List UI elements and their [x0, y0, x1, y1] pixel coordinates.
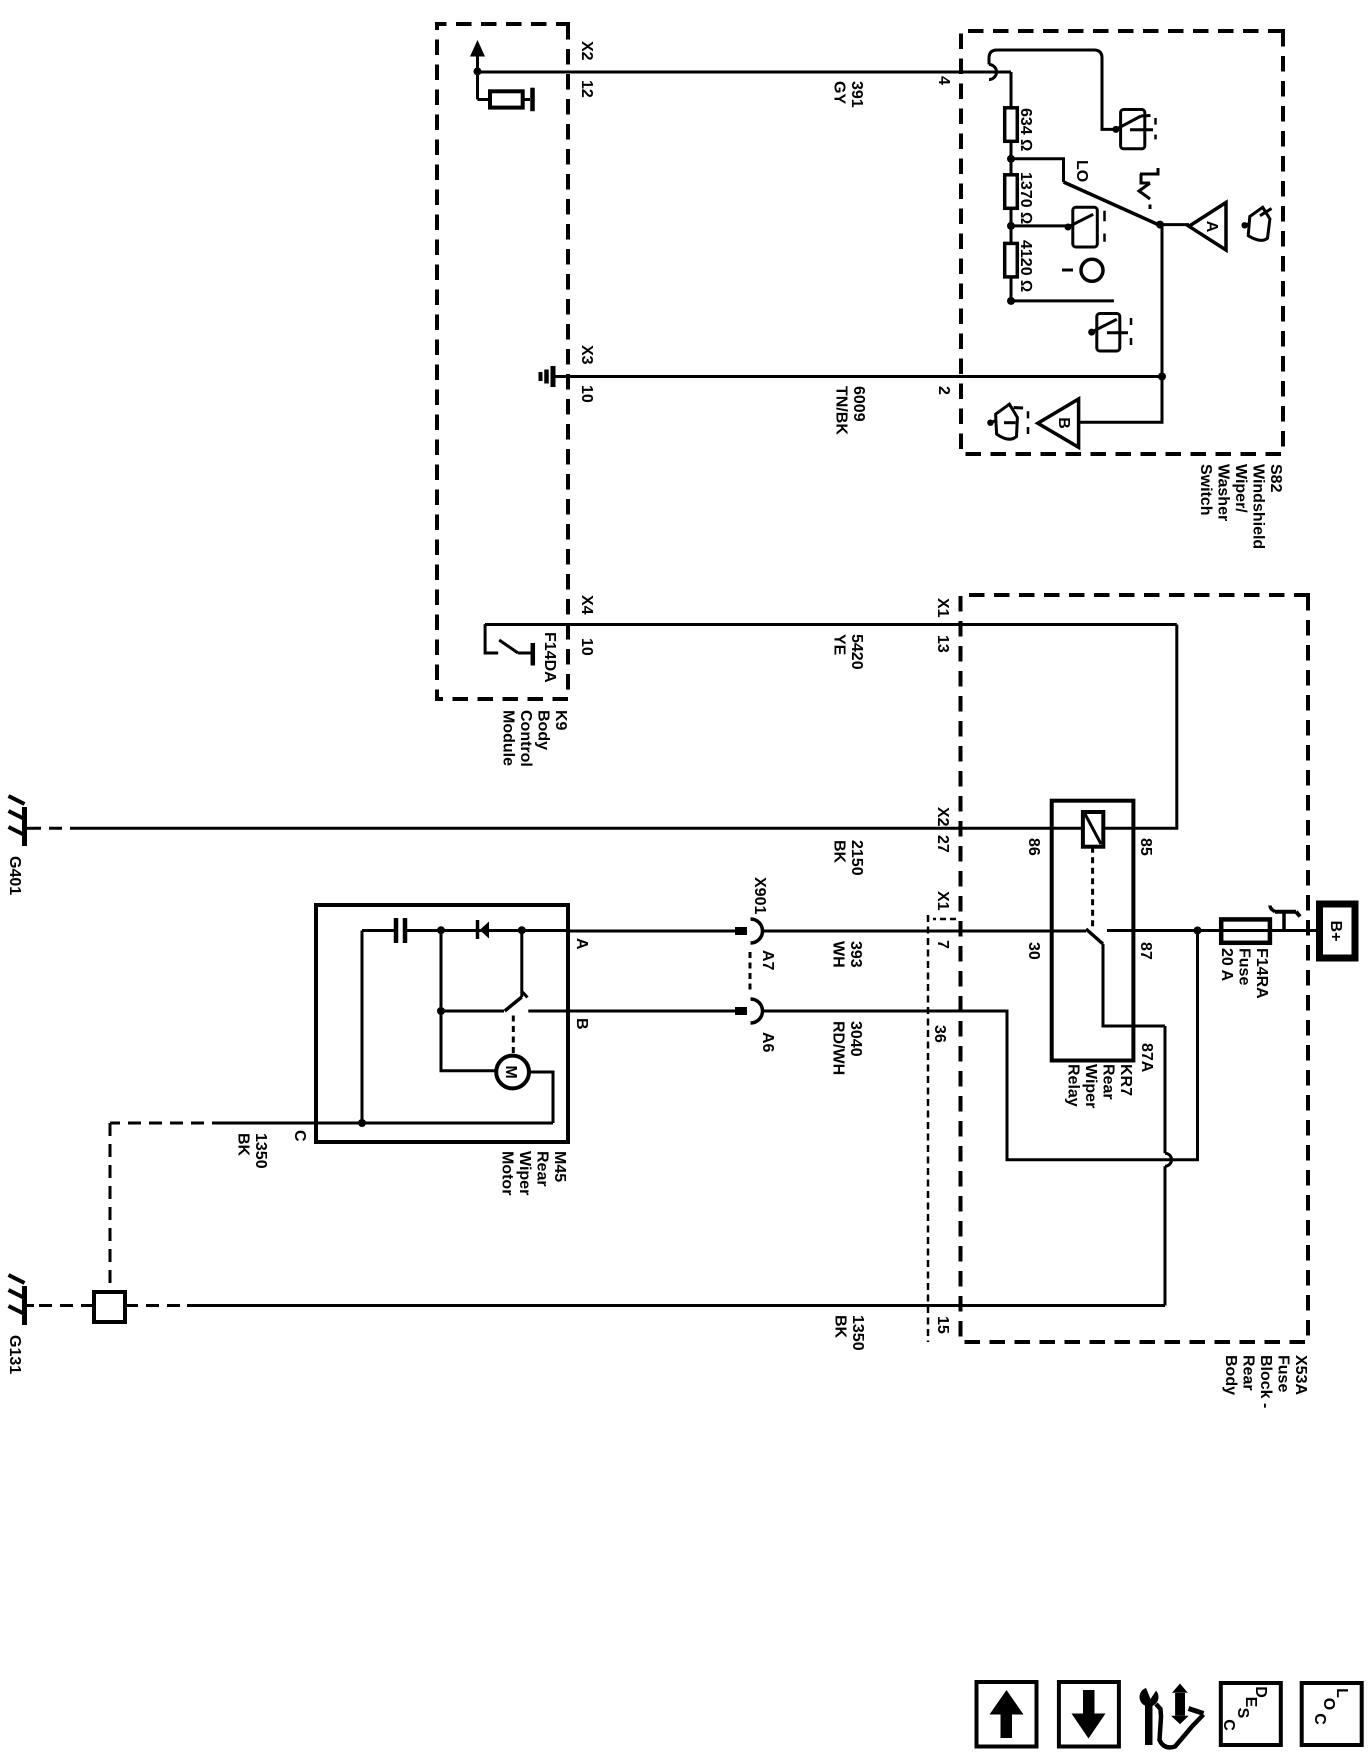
- wire: common to triangle A: [1160, 223, 1189, 226]
- K9 Body Control Module dashed box: [437, 24, 568, 699]
- G131 label: [6, 1335, 23, 1374]
- relay armature: [1086, 929, 1103, 944]
- A7 label: [759, 950, 776, 971]
- motor right wire: [529, 1072, 553, 1123]
- fuse F14RA 20 A: [1221, 919, 1270, 942]
- toolbar: previous arrow box: [977, 1682, 1037, 1747]
- node: dot2: [518, 926, 526, 934]
- svg-text:86: 86: [1025, 838, 1042, 856]
- wire label 393 WH: [830, 941, 865, 968]
- letter A: [1203, 221, 1220, 233]
- ground G401: [9, 796, 25, 846]
- svg-text:O: O: [1320, 1698, 1337, 1710]
- svg-text:B+: B+: [1327, 921, 1344, 942]
- svg-text:X901: X901: [751, 877, 768, 914]
- svg-text:X1: X1: [934, 598, 951, 618]
- svg-text:393WH: 393WH: [830, 941, 865, 968]
- terminal label 87: [1137, 942, 1154, 960]
- wire 6009 TN/BK (S82 pin 2 to BCM X3-10): [555, 375, 1162, 378]
- triangle A (circuit continuation): [1189, 203, 1226, 251]
- rail to A-wire: [361, 931, 364, 1124]
- wire 1350 BK main run: [125, 1304, 187, 1307]
- wire 3040 RD/WH (pin 36 to motor B): [763, 1010, 960, 1013]
- svg-text:12: 12: [578, 80, 595, 98]
- F14DA label: [541, 632, 558, 683]
- svg-text:S82WindshieldWiper/WasherSwitc: S82WindshieldWiper/WasherSwitch: [1197, 464, 1284, 549]
- wire: LO contact branch: [1011, 159, 1064, 182]
- wire label 1350 BK (at motor): [235, 1133, 270, 1169]
- svg-text:27: 27: [934, 835, 951, 853]
- pin label 27: [934, 835, 951, 853]
- node: fused feed junction: [1194, 927, 1202, 935]
- terminal label 86: [1025, 838, 1042, 856]
- svg-text:4: 4: [935, 76, 952, 85]
- node: junction dot wire 391 at BCM: [474, 67, 482, 75]
- terminal label 85: [1137, 838, 1154, 856]
- branch to pin 36: [959, 931, 1198, 1160]
- M45 Rear Wiper Motor box: [316, 905, 568, 1142]
- BCM switch F14DA at X4-10: [485, 624, 498, 653]
- wire: common vertical to pin 2 line: [1079, 225, 1162, 423]
- resistor 634 label: [1017, 108, 1034, 151]
- node: dot3: [437, 1007, 445, 1015]
- fuse holder terminal symbol: [1270, 906, 1300, 931]
- X901 label: [751, 877, 768, 914]
- wire 87 to B+: [1107, 929, 1320, 932]
- svg-text:M45RearWiperMotor: M45RearWiperMotor: [499, 1151, 569, 1195]
- svg-text:X53AFuseBlock -RearBody: X53AFuseBlock -RearBody: [1222, 1355, 1309, 1408]
- park switch feed: [520, 930, 523, 997]
- wiper switch position icon 3: [1088, 314, 1131, 352]
- pin label X1 (7): [934, 891, 951, 911]
- G401 label: [6, 856, 23, 895]
- toolbar: LOC box: [1302, 1683, 1362, 1745]
- pin label 10 (X3): [578, 385, 595, 403]
- pin label B: [573, 1018, 590, 1030]
- resistor 4120 label: [1017, 240, 1034, 292]
- node: dot1: [437, 926, 445, 934]
- M45 label: [499, 1151, 569, 1195]
- F14RA Fuse 20 A label: [1218, 948, 1270, 999]
- BCM internal B+ arrow symbol at X2/12: [476, 55, 479, 100]
- svg-text:B: B: [573, 1018, 590, 1030]
- capacitor: [403, 918, 408, 943]
- mist lever icon: [1139, 168, 1160, 209]
- node: common point: [1156, 221, 1164, 229]
- relay 87A path: [1103, 944, 1165, 1026]
- motor internal A wire: [362, 929, 568, 932]
- wire label 5420 YE: [831, 634, 866, 670]
- wire label 1350 BK (at fuse block): [832, 1315, 867, 1351]
- pin label A: [573, 938, 590, 950]
- park switch tick: [523, 992, 528, 998]
- resistor 634 ohm: [1005, 108, 1018, 142]
- wiper switch position icon 2: [1011, 207, 1105, 247]
- svg-text:10: 10: [578, 638, 595, 656]
- svg-text:15: 15: [934, 1316, 951, 1334]
- terminal label 30: [1025, 942, 1042, 960]
- svg-text:C: C: [1220, 1719, 1237, 1731]
- motor M letter: [502, 1065, 519, 1078]
- terminal label 87A: [1138, 1043, 1155, 1073]
- svg-text:E: E: [1242, 1697, 1259, 1708]
- wiper switch position icon 1: [1112, 110, 1155, 149]
- svg-text:6009TN/BK: 6009TN/BK: [833, 386, 868, 435]
- pin label X2: [578, 41, 595, 61]
- motor B internal wire left: [441, 1010, 504, 1013]
- svg-text:C: C: [291, 1130, 308, 1142]
- svg-text:10: 10: [578, 385, 595, 403]
- triangle B (circuit continuation): [1038, 399, 1079, 447]
- BCM internal resistor at X2/12: [478, 98, 491, 101]
- pin label 36: [931, 1025, 948, 1043]
- svg-text:C: C: [1311, 1713, 1328, 1725]
- svg-text:A: A: [573, 938, 590, 950]
- node: junction with 6009 wire: [1158, 373, 1166, 381]
- wire 393 WH lower section: [568, 930, 735, 933]
- S82 resistor chain rail: [1010, 72, 1013, 301]
- pin label X2 (27): [934, 807, 951, 827]
- svg-text:391GY: 391GY: [831, 81, 866, 108]
- svg-text:A7: A7: [759, 950, 776, 971]
- pin label 15: [934, 1316, 951, 1334]
- BCM ground symbol at X3-10: [551, 366, 556, 387]
- splice square: [94, 1292, 125, 1322]
- diode: [476, 920, 480, 939]
- letter B: [1055, 417, 1072, 429]
- ground G131: [9, 1275, 25, 1325]
- svg-text:F14DA: F14DA: [541, 632, 558, 683]
- pin label X4: [578, 595, 595, 615]
- node: chain junction 1: [1007, 155, 1015, 163]
- toolbar: DESC box: [1220, 1683, 1281, 1745]
- S82 label: [1197, 464, 1284, 549]
- wire: splice to G131 dashed: [34, 1304, 94, 1307]
- B+ terminal box: [1320, 904, 1356, 958]
- svg-text:36: 36: [931, 1025, 948, 1043]
- pin label 2: [935, 386, 952, 395]
- svg-text:1350BK: 1350BK: [832, 1315, 867, 1351]
- wire: chain bottom branch: [1011, 299, 1114, 302]
- wiper blade icon (near A): [1241, 207, 1271, 240]
- switch arm to common point: [1064, 182, 1159, 225]
- pin label 4: [935, 76, 952, 85]
- resistor 1370 label: [1017, 172, 1034, 224]
- wire 5420 YE (BCM X4-10 to fuse block X1-13): [485, 623, 1177, 626]
- pin label 13: [934, 635, 951, 653]
- pin label 10 (X4): [578, 638, 595, 656]
- svg-text:G131: G131: [6, 1335, 23, 1374]
- LO label: [1073, 160, 1090, 182]
- wire to motor: [441, 930, 496, 1070]
- wire label 391 GY: [831, 81, 866, 108]
- X901 dashed link: [749, 952, 752, 993]
- X1 connector dashed line: [927, 915, 930, 1342]
- node: rail junction: [358, 1119, 366, 1127]
- svg-text:2: 2: [935, 386, 952, 395]
- wire label 3040 RD/WH: [830, 1021, 865, 1075]
- washer circle symbol: [1081, 259, 1103, 281]
- pin label X1 (13): [934, 598, 951, 618]
- B+ label: [1327, 921, 1344, 942]
- svg-text:2150BK: 2150BK: [831, 840, 866, 876]
- svg-text:X1: X1: [934, 891, 951, 911]
- S82 internal top rail to wiper icon 1: [989, 50, 1113, 129]
- svg-text:634 Ω: 634 Ω: [1017, 108, 1034, 151]
- park switch arm: [505, 997, 522, 1011]
- svg-text:L: L: [1333, 1688, 1350, 1698]
- wire: X1-13 feed to relay 85 (corner): [1133, 625, 1176, 829]
- X53A Fuse Block - Rear Body dashed box: [961, 595, 1309, 1342]
- pin label 7: [934, 940, 951, 949]
- node: chain junction 3: [1007, 297, 1015, 305]
- wire 393 WH (relay 30 / X1-7 to motor A): [763, 930, 1087, 933]
- KR7 Rear Wiper Relay box: [1052, 801, 1134, 1061]
- wire 2150 BK (G401 to relay 86): [83, 827, 1083, 830]
- wire 3040 RD/WH lower section: [568, 1010, 735, 1013]
- svg-text:87: 87: [1137, 942, 1154, 960]
- svg-text:X3: X3: [578, 345, 595, 365]
- dashed branch to splice: [109, 1123, 112, 1292]
- resistor 1370 ohm: [1005, 175, 1018, 209]
- K9 Body Control Module label: [500, 710, 570, 767]
- X901 connector A7: [735, 919, 763, 943]
- toolbar: next arrow box: [1059, 1682, 1119, 1747]
- wire 1350 BK from pin C: [225, 1122, 316, 1125]
- svg-text:M: M: [502, 1065, 519, 1078]
- svg-text:X2: X2: [934, 807, 951, 827]
- svg-text:G401: G401: [6, 856, 23, 895]
- svg-text:K9BodyControlModule: K9BodyControlModule: [500, 710, 570, 767]
- svg-text:87A: 87A: [1138, 1043, 1155, 1073]
- svg-text:A: A: [1203, 221, 1220, 233]
- pin label 12: [578, 80, 595, 98]
- svg-text:KR7RearWiperRelay: KR7RearWiperRelay: [1065, 1064, 1135, 1108]
- svg-text:85: 85: [1137, 838, 1154, 856]
- svg-text:A6: A6: [759, 1032, 776, 1053]
- svg-text:F14RAFuse20 A: F14RAFuse20 A: [1218, 948, 1270, 999]
- KR7 label: [1065, 1064, 1135, 1108]
- motor B internal wire right: [528, 1010, 568, 1013]
- svg-text:30: 30: [1025, 942, 1042, 960]
- wire 1350 BK inside fuse block (87A to pin 15) with hop: [1164, 1026, 1167, 1153]
- svg-text:1350BK: 1350BK: [235, 1133, 270, 1169]
- motor M circle: [496, 1056, 529, 1089]
- relay coil-armature dashed link: [1091, 847, 1094, 929]
- svg-text:4120 Ω: 4120 Ω: [1017, 240, 1034, 292]
- motor bottom rail / pin C: [316, 1122, 553, 1125]
- svg-text:5420YE: 5420YE: [831, 634, 866, 670]
- resistor 4120 ohm: [1005, 243, 1018, 277]
- park switch linkage dashed: [512, 1016, 515, 1055]
- A6 label: [759, 1032, 776, 1053]
- pin label X3: [578, 345, 595, 365]
- washer circle dash: [1062, 269, 1073, 272]
- node: chain junction 2: [1007, 222, 1015, 230]
- X53A label: [1222, 1355, 1309, 1408]
- relay coil: [1103, 827, 1133, 830]
- pin label C: [291, 1130, 308, 1142]
- S82 Windshield Wiper/Washer Switch dashed box: [961, 31, 1283, 454]
- svg-text:3040RD/WH: 3040RD/WH: [830, 1021, 865, 1075]
- svg-text:S: S: [1234, 1708, 1251, 1719]
- svg-text:7: 7: [934, 940, 951, 949]
- toolbar: wrench and split-arrow icon: [1140, 1684, 1204, 1748]
- S82 terminal hook at pin 4: [989, 65, 997, 80]
- X901 connector A6: [735, 999, 763, 1023]
- X1 connector tick at pin 7: [933, 918, 956, 921]
- wire label 6009 TN/BK: [833, 386, 868, 435]
- wire 391 GY (BCM X2-12 to S82 pin 4): [477, 71, 1011, 74]
- BCM internal terminal bar at X2/12: [530, 88, 535, 112]
- svg-text:X2: X2: [578, 41, 595, 61]
- washer pump icon (near B): [987, 404, 1028, 439]
- svg-text:1370 Ω: 1370 Ω: [1017, 172, 1034, 224]
- svg-text:X4: X4: [578, 595, 595, 615]
- svg-text:13: 13: [934, 635, 951, 653]
- svg-text:B: B: [1055, 417, 1072, 429]
- wire label 2150 BK: [831, 840, 866, 876]
- svg-text:LO: LO: [1073, 160, 1090, 182]
